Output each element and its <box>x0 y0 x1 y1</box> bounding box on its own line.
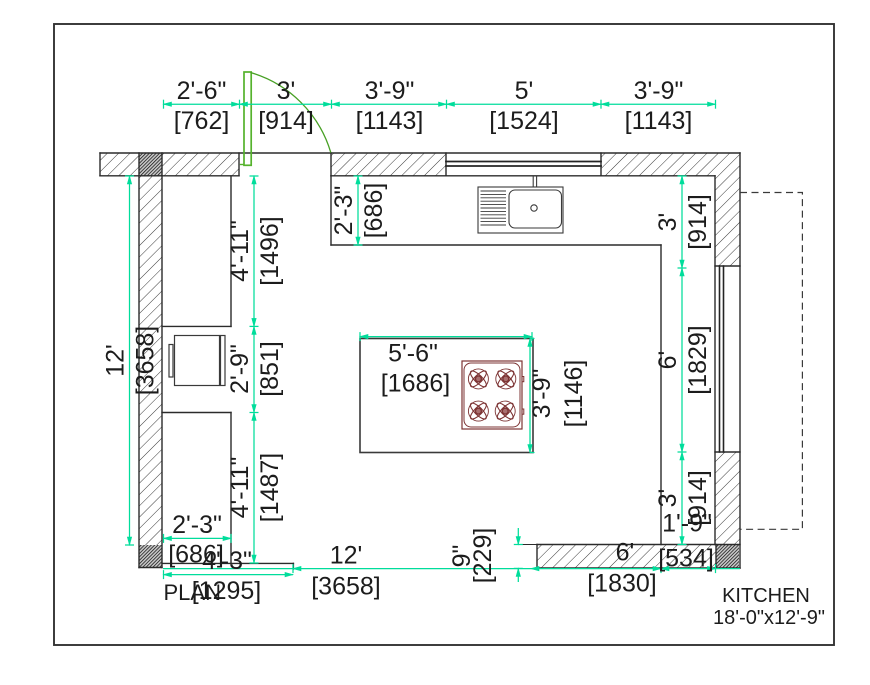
svg-text:2'-6": 2'-6" <box>177 77 227 105</box>
svg-text:KITCHEN: KITCHEN <box>722 585 810 607</box>
svg-text:3'-9": 3'-9" <box>528 369 556 419</box>
svg-text:[851]: [851] <box>256 341 284 397</box>
svg-text:[534]: [534] <box>658 545 714 573</box>
svg-text:6': 6' <box>616 539 635 567</box>
svg-text:[1146]: [1146] <box>560 360 588 428</box>
svg-text:[762]: [762] <box>174 107 230 135</box>
svg-text:[1830]: [1830] <box>587 570 657 598</box>
svg-text:[1487]: [1487] <box>256 453 284 523</box>
svg-text:12': 12' <box>102 344 130 377</box>
svg-text:5'-6": 5'-6" <box>388 340 438 368</box>
svg-text:4'-3": 4'-3" <box>202 547 252 575</box>
svg-text:3'-9": 3'-9" <box>365 77 415 105</box>
svg-text:[1686]: [1686] <box>381 370 451 398</box>
svg-text:[1143]: [1143] <box>356 107 424 135</box>
svg-text:[3658]: [3658] <box>311 573 381 601</box>
svg-text:[1496]: [1496] <box>256 216 284 286</box>
svg-text:[1829]: [1829] <box>684 325 712 395</box>
svg-text:12': 12' <box>330 542 363 570</box>
svg-text:[229]: [229] <box>469 528 497 584</box>
svg-text:[3658]: [3658] <box>132 326 160 396</box>
svg-text:2'-3": 2'-3" <box>330 186 358 236</box>
svg-text:[686]: [686] <box>360 183 388 239</box>
svg-text:3': 3' <box>277 77 296 105</box>
svg-text:3': 3' <box>654 213 682 232</box>
svg-text:4'-11": 4'-11" <box>226 457 254 519</box>
svg-text:[914]: [914] <box>258 107 314 135</box>
svg-text:4'-11": 4'-11" <box>226 220 254 282</box>
svg-text:3'-9": 3'-9" <box>634 77 684 105</box>
svg-text:18'-0"x12'-9": 18'-0"x12'-9" <box>713 607 825 629</box>
svg-text:2'-3": 2'-3" <box>172 511 222 539</box>
svg-text:1'-9": 1'-9" <box>662 510 712 538</box>
svg-text:[914]: [914] <box>684 194 712 250</box>
svg-text:2'-9": 2'-9" <box>226 344 254 394</box>
svg-text:5': 5' <box>515 77 534 105</box>
svg-text:3': 3' <box>654 489 682 508</box>
svg-text:PLAN: PLAN <box>164 580 221 605</box>
svg-text:[1143]: [1143] <box>625 107 693 135</box>
svg-text:[1524]: [1524] <box>489 107 559 135</box>
svg-text:6': 6' <box>654 351 682 370</box>
